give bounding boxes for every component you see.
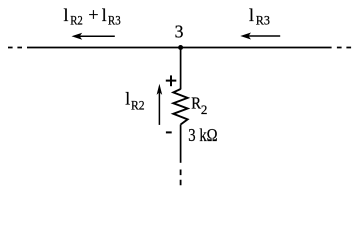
wire: right dashed lead of top bus <box>337 47 352 49</box>
current arrow for IR3 (points left) <box>240 33 280 40</box>
wire: bottom dashed lead <box>180 170 182 186</box>
svg-text:l: l <box>64 5 69 25</box>
label IR3 <box>249 5 270 28</box>
current arrow IR2 (points up) <box>157 84 163 125</box>
svg-text:2: 2 <box>201 102 208 117</box>
svg-text:l: l <box>125 89 130 109</box>
svg-text:l: l <box>102 5 107 25</box>
svg-text:R3: R3 <box>256 13 270 28</box>
label IR2 <box>125 89 144 113</box>
svg-text:R2: R2 <box>131 97 145 112</box>
svg-text:R2: R2 <box>70 13 83 28</box>
polarity minus sign <box>166 131 172 133</box>
polarity plus sign <box>166 75 177 86</box>
wire: left dashed lead of top bus <box>8 47 22 49</box>
wire: top horizontal bus <box>27 47 332 49</box>
node 3 junction dot <box>178 45 183 50</box>
label IR2 + IR3 <box>64 5 121 28</box>
resistor R2 zigzag body <box>173 89 187 125</box>
svg-text:l: l <box>249 5 254 25</box>
label R2 resistor name <box>191 93 207 116</box>
svg-text:+: + <box>88 5 98 25</box>
wire: vertical branch below resistor <box>180 125 182 163</box>
svg-text:3: 3 <box>175 21 184 41</box>
wire: vertical branch from node 3 to resistor <box>180 48 182 90</box>
svg-text:3 kΩ: 3 kΩ <box>188 125 217 145</box>
current arrow for IR2 + IR3 (points left) <box>72 33 115 40</box>
svg-text:R3: R3 <box>108 13 121 28</box>
